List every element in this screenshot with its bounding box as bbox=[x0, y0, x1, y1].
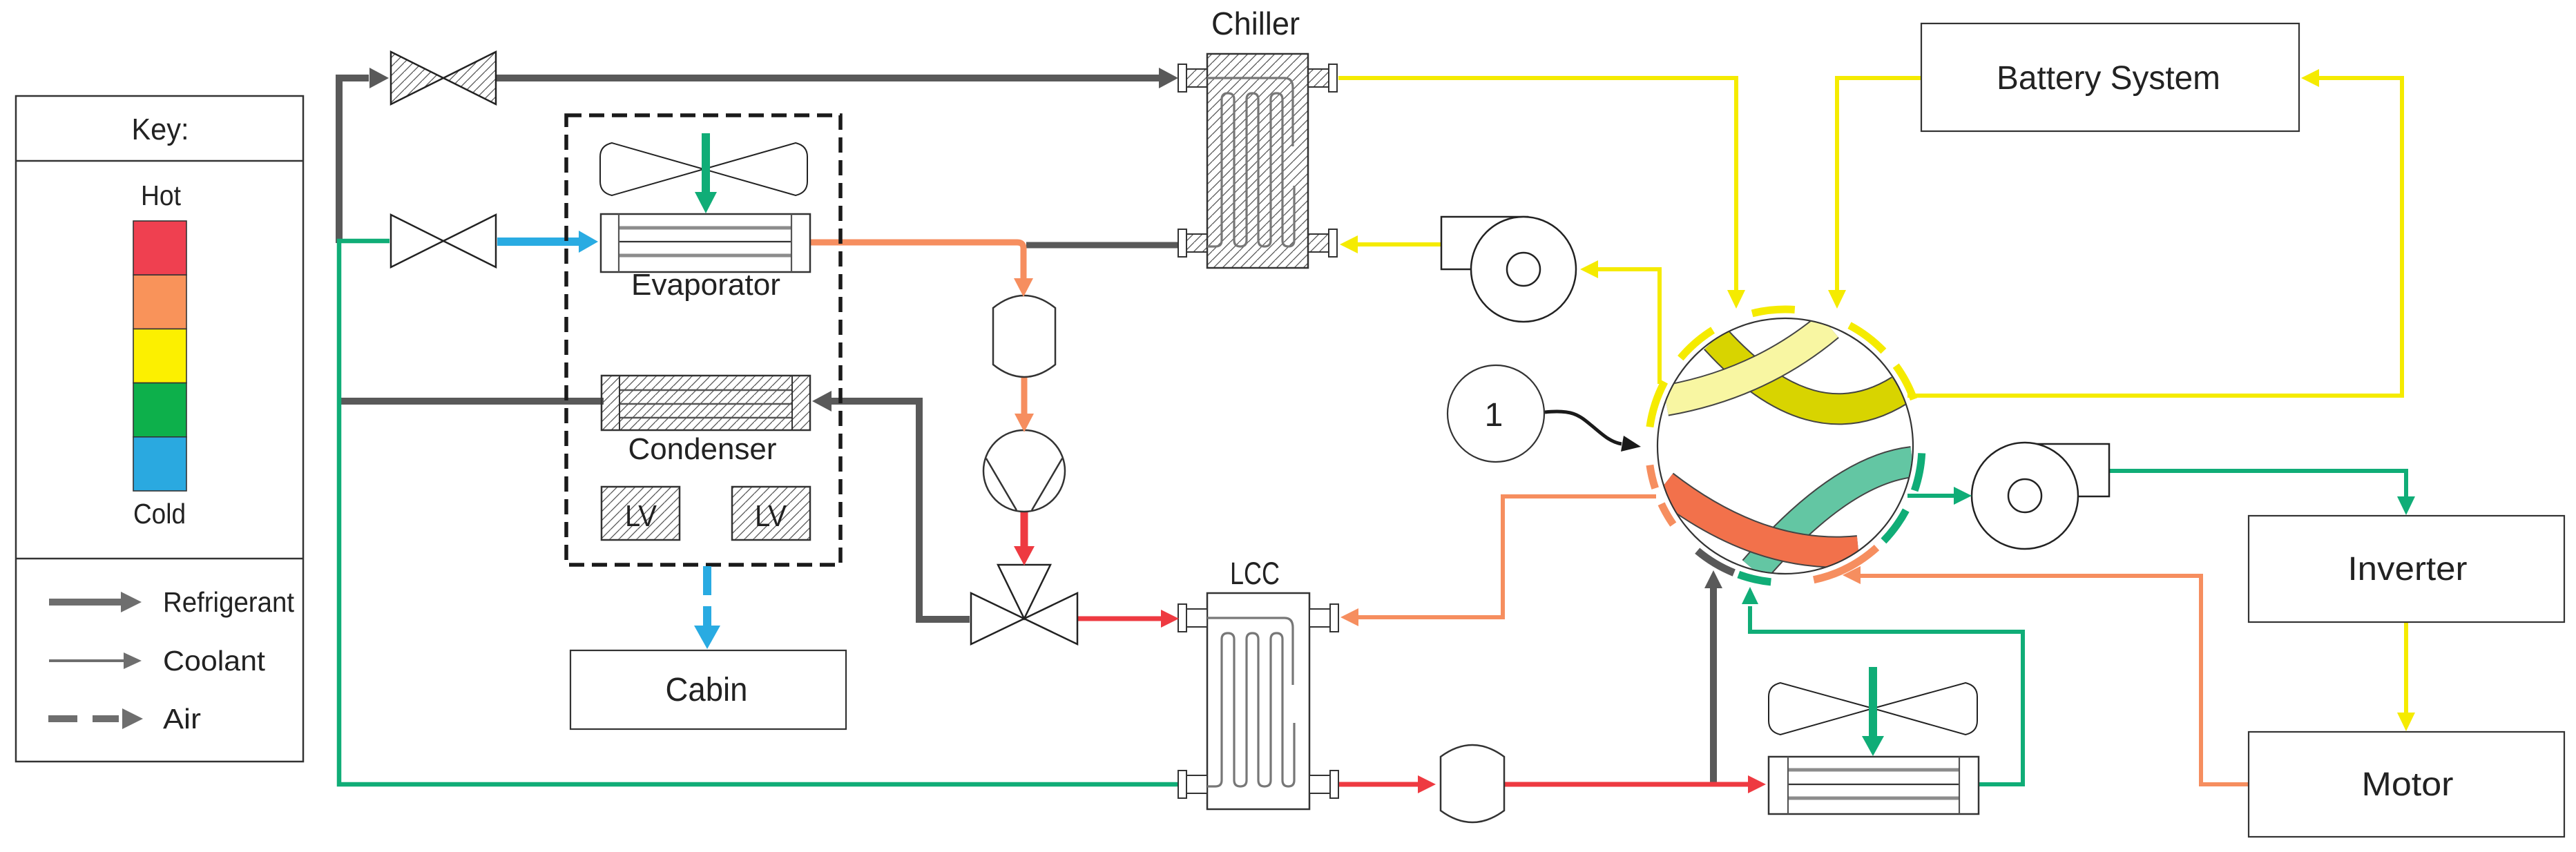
receiver R2 bbox=[1441, 745, 1504, 822]
wire pump P2 to inverter bbox=[2109, 471, 2406, 509]
svg-text:Cabin: Cabin bbox=[666, 672, 748, 708]
arrowhead into multiport valve yellow 2 bbox=[1828, 290, 1846, 309]
legend refrigerant arrow bbox=[49, 599, 122, 606]
LV box right bbox=[732, 487, 810, 540]
arrowhead into multiport valve (green up) bbox=[1742, 587, 1758, 604]
multiport valve dark yellow passage bbox=[1715, 339, 1900, 409]
arrowhead into valve V1 bbox=[369, 68, 389, 88]
wire 3way valve to LCC (red) bbox=[1077, 617, 1162, 621]
arrowhead into receiver R2 (red) bbox=[1418, 775, 1436, 793]
key color square orange bbox=[133, 275, 186, 329]
key color square blue bbox=[133, 437, 186, 491]
multiport valve green port marks bbox=[1914, 453, 1922, 490]
multiport valve orange passage bbox=[1664, 485, 1858, 552]
multiport valve body (circle) bbox=[1657, 318, 1913, 574]
arrowhead into receiver R1 (orange) bbox=[1014, 278, 1033, 297]
wire radiator to multiport valve (green) bbox=[1750, 606, 2023, 784]
air arrow through fan F1 (green) bbox=[702, 133, 710, 192]
valve V2 (expansion valve) bbox=[391, 215, 443, 267]
arrowhead into 3way valve (red) bbox=[1014, 546, 1035, 565]
wire receiver R1 to compressor bbox=[1021, 377, 1028, 414]
svg-text:1: 1 bbox=[1485, 397, 1503, 434]
wire 3way valve to condenser bbox=[827, 401, 970, 619]
arrowhead into multiport valve yellow 1 bbox=[1727, 290, 1745, 309]
wire expansion valve V2 to evaporator (blue) bbox=[497, 238, 580, 246]
wire condenser out left bbox=[341, 398, 604, 405]
radiator heat exchanger bbox=[1769, 757, 1979, 814]
wire green riser and LCC bottom feed bbox=[339, 241, 1182, 784]
arrowhead into LCC coolant (orange) bbox=[1340, 608, 1358, 626]
arrowhead into pump P1 (yellow) bbox=[1580, 260, 1598, 278]
arrowhead into inverter (green) bbox=[2397, 496, 2415, 515]
wire LCC to receiver R2 (red) bbox=[1334, 782, 1419, 787]
receiver R1 bbox=[993, 296, 1055, 377]
wire motor to multiport valve (orange) bbox=[1859, 576, 2249, 784]
arrowhead into pump P2 (green) bbox=[1954, 487, 1972, 505]
wire compressor to 3way valve (red) bbox=[1021, 512, 1028, 547]
air arrow through fan F2 (green) bbox=[1869, 667, 1877, 736]
svg-text:LV: LV bbox=[755, 499, 787, 533]
arrowhead into battery (yellow) bbox=[2301, 69, 2319, 87]
svg-text:Condenser: Condenser bbox=[628, 432, 777, 466]
svg-text:Air: Air bbox=[163, 703, 201, 735]
svg-text:Battery System: Battery System bbox=[1997, 60, 2220, 97]
key color square green bbox=[133, 383, 186, 437]
multiport valve yellow port marks bbox=[1650, 382, 1664, 427]
svg-text:Hot: Hot bbox=[141, 180, 182, 211]
arrowhead into chiller bottom-right (yellow) bbox=[1340, 235, 1358, 253]
arrowhead into multiport valve (gray up) bbox=[1704, 570, 1722, 588]
LV box left bbox=[602, 487, 680, 540]
multiport valve gray port mark bbox=[1698, 551, 1734, 573]
svg-text:Coolant: Coolant bbox=[163, 645, 266, 677]
arrowhead into evaporator (blue) bbox=[579, 231, 598, 253]
svg-text:Cold: Cold bbox=[133, 498, 186, 530]
multiport valve light yellow passage bbox=[1666, 326, 1829, 400]
svg-text:Inverter: Inverter bbox=[2348, 551, 2468, 588]
callout circle 1 bbox=[1448, 365, 1544, 462]
wire refrigerant left riser to valve V1 bbox=[339, 78, 369, 243]
svg-text:LCC: LCC bbox=[1230, 556, 1280, 591]
key box frame bbox=[16, 96, 303, 762]
evaporator heat exchanger bbox=[601, 214, 810, 272]
HVAC unit dashed enclosure bbox=[566, 115, 840, 565]
wire battery out to multiport valve bbox=[1837, 78, 1921, 290]
key color square red bbox=[133, 221, 186, 275]
svg-text:LV: LV bbox=[625, 499, 657, 533]
arrowhead into condenser (gray) bbox=[812, 391, 832, 412]
compressor bbox=[983, 430, 1065, 512]
inverter box bbox=[2249, 516, 2564, 622]
wire receiver R2 to radiator (red) bbox=[1504, 782, 1749, 787]
three-way valve bbox=[971, 593, 1024, 644]
wire pump P1 to chiller bbox=[1356, 242, 1441, 246]
wire multiport valve to battery bbox=[1907, 78, 2402, 396]
arrowhead into multiport valve orange bottom bbox=[1843, 566, 1861, 584]
callout squiggle arrow bbox=[1545, 412, 1622, 444]
fan F2 (radiator fan) bbox=[1769, 683, 1873, 735]
multiport valve orange port marks bbox=[1662, 504, 1673, 525]
pump P1 (battery coolant pump) bbox=[1441, 217, 1528, 269]
LCC heat exchanger bbox=[1207, 593, 1309, 809]
key box section divider bbox=[16, 558, 303, 560]
wire multiport valve to pump P1 bbox=[1597, 269, 1660, 384]
arrowhead into compressor (orange) bbox=[1015, 414, 1034, 432]
multiport valve green passage bbox=[1754, 462, 1912, 570]
wire multiport valve to pump P2 bbox=[1907, 494, 1954, 498]
valve V1 (hatched shutoff valve) bbox=[391, 52, 443, 104]
arrowhead into LCC refrigerant (red) bbox=[1161, 610, 1179, 628]
wire junction to chiller bottom-left bbox=[1026, 242, 1182, 249]
wire chiller to multiport valve (yellow) bbox=[1338, 78, 1736, 290]
motor box bbox=[2249, 732, 2564, 837]
air arrow to cabin (blue dashed) bbox=[703, 566, 711, 595]
pump P2 (powertrain coolant pump) bbox=[2030, 444, 2109, 496]
svg-text:Evaporator: Evaporator bbox=[631, 268, 780, 302]
svg-text:Motor: Motor bbox=[2362, 766, 2454, 803]
svg-text:Chiller: Chiller bbox=[1211, 6, 1300, 41]
fan F1 (evaporator blower) bbox=[600, 143, 704, 195]
key color square yellow bbox=[133, 329, 186, 383]
wire inverter to motor (yellow) bbox=[2404, 622, 2408, 727]
arrowhead into chiller top-left bbox=[1159, 68, 1178, 88]
wire multiport valve to LCC (orange) bbox=[1358, 496, 1656, 617]
chiller heat exchanger bbox=[1207, 54, 1308, 268]
wire junction riser to multiport valve (gray) bbox=[1710, 588, 1717, 784]
arrowhead into motor (yellow) bbox=[2397, 713, 2415, 731]
svg-text:Refrigerant: Refrigerant bbox=[163, 586, 295, 618]
cabin box bbox=[570, 650, 846, 729]
battery system box bbox=[1921, 23, 2299, 131]
key box title divider bbox=[16, 160, 303, 162]
svg-text:Key:: Key: bbox=[132, 113, 189, 146]
wire evaporator out to receiver R1 bbox=[809, 242, 1023, 279]
legend air arrow bbox=[48, 715, 119, 722]
arrowhead into radiator (red) bbox=[1748, 775, 1766, 793]
legend coolant arrow bbox=[49, 659, 124, 662]
wire valve V1 to chiller top-left bbox=[496, 75, 1159, 81]
condenser heat exchanger bbox=[602, 376, 810, 430]
